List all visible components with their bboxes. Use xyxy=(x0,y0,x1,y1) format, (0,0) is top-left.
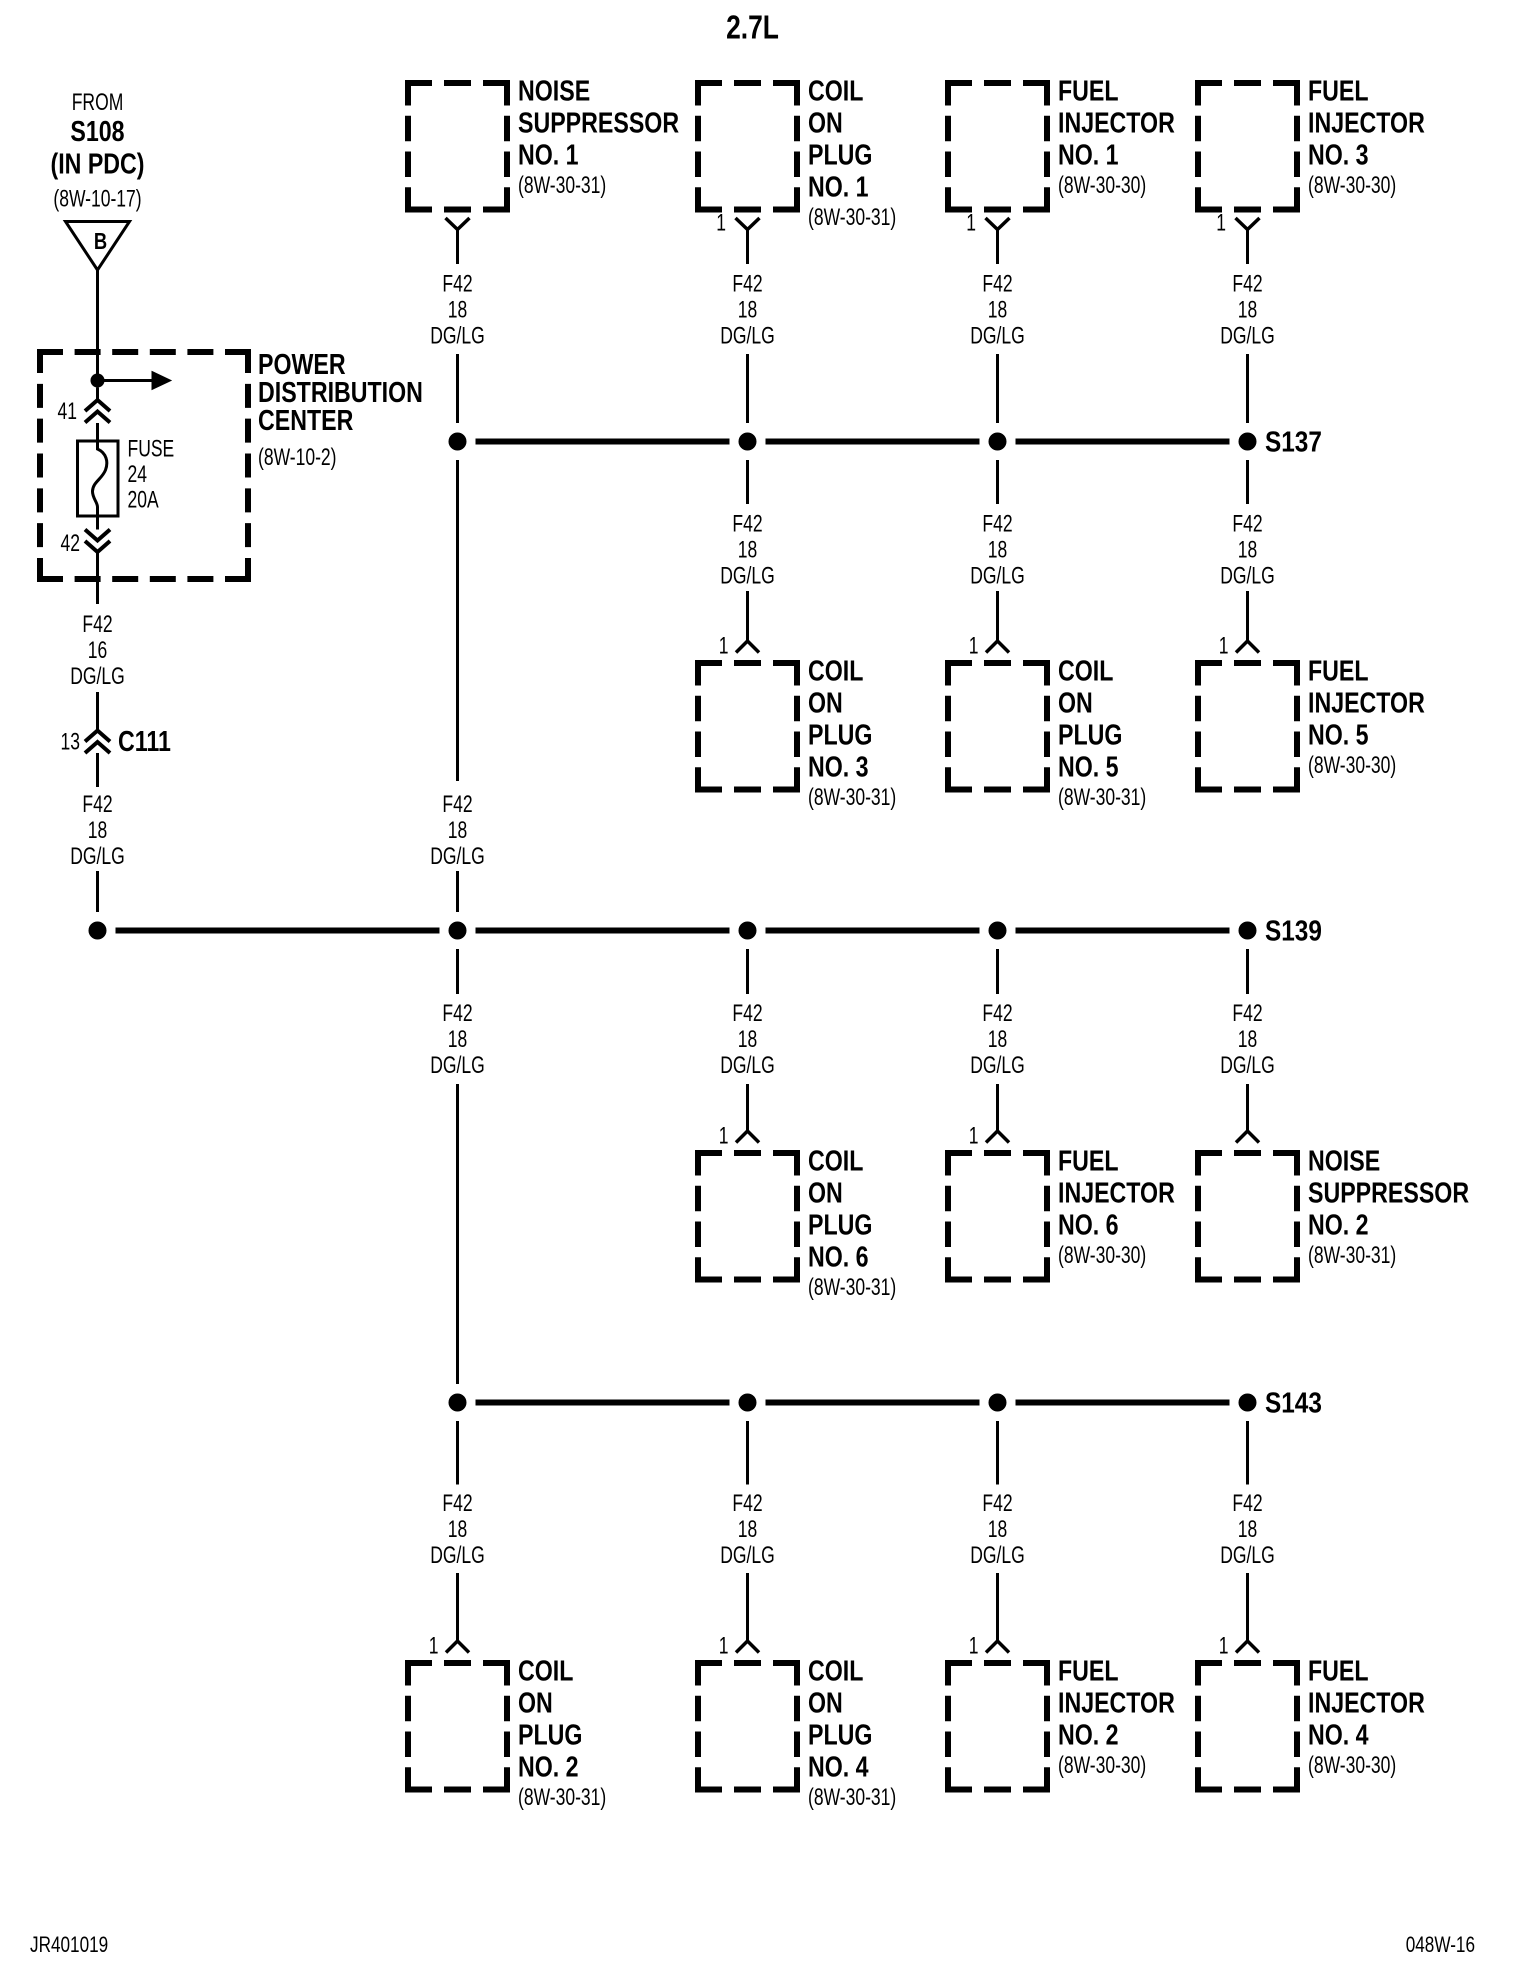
svg-text:DG/LG: DG/LG xyxy=(1220,1542,1274,1568)
svg-text:F42: F42 xyxy=(1232,271,1262,297)
svg-text:1: 1 xyxy=(969,1633,979,1659)
bus wire S137 segment xyxy=(476,439,730,445)
bus wire S139 segment xyxy=(116,928,440,934)
wire xyxy=(456,871,459,912)
wire xyxy=(996,1421,999,1485)
svg-text:FUEL: FUEL xyxy=(1058,74,1119,107)
bus wire S137 segment xyxy=(1016,439,1230,445)
svg-text:DG/LG: DG/LG xyxy=(1220,323,1274,349)
svg-text:DG/LG: DG/LG xyxy=(720,1542,774,1568)
svg-text:1: 1 xyxy=(429,1633,439,1659)
svg-text:1: 1 xyxy=(1219,633,1229,659)
junction node S137 xyxy=(989,433,1007,451)
junction node S139 xyxy=(739,922,757,940)
svg-text:C111: C111 xyxy=(118,724,171,757)
component box FUEL INJECTOR NO. 6 (dashed) xyxy=(945,1150,1050,1156)
wire xyxy=(96,423,99,441)
svg-text:F42: F42 xyxy=(732,1000,762,1026)
wire xyxy=(96,692,99,731)
svg-text:F42: F42 xyxy=(982,1000,1012,1026)
connector pin below fuel injector NO.1 xyxy=(986,218,1010,230)
connector pin above row3 box xyxy=(1236,1131,1259,1143)
svg-text:(8W-30-30): (8W-30-30) xyxy=(1058,1752,1146,1778)
svg-text:DG/LG: DG/LG xyxy=(970,323,1024,349)
bus wire S139 segment xyxy=(1016,928,1230,934)
connector pin 41 chevrons xyxy=(85,400,110,411)
wire xyxy=(1246,354,1249,423)
svg-text:ON: ON xyxy=(808,106,843,139)
svg-text:18: 18 xyxy=(88,817,107,843)
svg-text:FUEL: FUEL xyxy=(1308,654,1369,687)
svg-text:SUPPRESSOR: SUPPRESSOR xyxy=(1308,1176,1469,1209)
svg-text:18: 18 xyxy=(1238,537,1257,563)
wire xyxy=(1246,949,1249,994)
wire xyxy=(746,591,749,641)
svg-text:PLUG: PLUG xyxy=(808,1208,872,1241)
svg-text:(8W-30-31): (8W-30-31) xyxy=(808,204,896,230)
component box NOISE SUPPRESSOR NO. 1 (dashed) xyxy=(405,80,510,86)
wire xyxy=(996,460,999,504)
svg-text:NO. 5: NO. 5 xyxy=(1058,750,1119,783)
svg-text:DG/LG: DG/LG xyxy=(970,1052,1024,1078)
component box FUEL INJECTOR NO. 5 (dashed) xyxy=(1195,660,1300,666)
svg-text:NO. 3: NO. 3 xyxy=(808,750,869,783)
svg-text:(8W-30-31): (8W-30-31) xyxy=(808,1784,896,1810)
junction node S139 xyxy=(989,922,1007,940)
svg-text:(8W-30-30): (8W-30-30) xyxy=(1058,172,1146,198)
svg-text:(8W-30-31): (8W-30-31) xyxy=(518,172,606,198)
svg-text:NOISE: NOISE xyxy=(1308,1144,1380,1177)
svg-text:16: 16 xyxy=(88,637,107,663)
svg-text:NO. 2: NO. 2 xyxy=(1308,1208,1369,1241)
svg-text:18: 18 xyxy=(448,817,467,843)
bus wire S143 segment xyxy=(766,1400,980,1406)
svg-text:F42: F42 xyxy=(442,1490,472,1516)
svg-text:FUSE: FUSE xyxy=(128,436,175,462)
svg-text:B: B xyxy=(94,229,107,254)
svg-text:DG/LG: DG/LG xyxy=(970,1542,1024,1568)
svg-text:SUPPRESSOR: SUPPRESSOR xyxy=(518,106,679,139)
svg-text:1: 1 xyxy=(719,633,729,659)
svg-text:18: 18 xyxy=(448,1516,467,1542)
bus wire S137 segment xyxy=(766,439,980,445)
svg-text:18: 18 xyxy=(988,1026,1007,1052)
svg-text:F42: F42 xyxy=(732,271,762,297)
junction node S143 xyxy=(449,1394,467,1412)
svg-text:(8W-30-30): (8W-30-30) xyxy=(1058,1242,1146,1268)
connector pin below coil NO.1 xyxy=(736,218,760,230)
svg-text:F42: F42 xyxy=(732,511,762,537)
svg-text:ON: ON xyxy=(808,686,843,719)
svg-text:NO. 5: NO. 5 xyxy=(1308,718,1369,751)
svg-text:DG/LG: DG/LG xyxy=(430,1052,484,1078)
svg-text:DG/LG: DG/LG xyxy=(720,563,774,589)
off-page connector B from S108 xyxy=(66,222,130,271)
connector pin above row4 box xyxy=(446,1641,469,1653)
svg-text:18: 18 xyxy=(1238,1516,1257,1542)
svg-text:INJECTOR: INJECTOR xyxy=(1058,106,1175,139)
svg-text:(8W-30-30): (8W-30-30) xyxy=(1308,752,1396,778)
svg-text:DG/LG: DG/LG xyxy=(430,1542,484,1568)
svg-text:1: 1 xyxy=(1219,1633,1229,1659)
svg-text:18: 18 xyxy=(988,537,1007,563)
wire xyxy=(996,354,999,423)
svg-text:F42: F42 xyxy=(1232,1000,1262,1026)
wire xyxy=(456,354,459,423)
svg-text:DG/LG: DG/LG xyxy=(720,1052,774,1078)
connector pin above row2 box xyxy=(986,641,1009,653)
svg-text:INJECTOR: INJECTOR xyxy=(1058,1176,1175,1209)
svg-text:INJECTOR: INJECTOR xyxy=(1308,1686,1425,1719)
svg-text:1: 1 xyxy=(969,633,979,659)
svg-text:FUEL: FUEL xyxy=(1058,1654,1119,1687)
wire xyxy=(96,270,99,381)
svg-text:ON: ON xyxy=(808,1176,843,1209)
junction node S137 xyxy=(449,433,467,451)
component box FUEL INJECTOR NO. 2 (dashed) xyxy=(945,1660,1050,1666)
svg-text:INJECTOR: INJECTOR xyxy=(1058,1686,1175,1719)
junction node S139 xyxy=(449,922,467,940)
svg-text:F42: F42 xyxy=(1232,511,1262,537)
svg-text:ON: ON xyxy=(518,1686,553,1719)
wire xyxy=(746,1084,749,1131)
svg-text:FUEL: FUEL xyxy=(1308,1654,1369,1687)
svg-text:CENTER: CENTER xyxy=(258,403,353,436)
svg-text:S139: S139 xyxy=(1265,915,1322,947)
component box COIL ON PLUG NO. 5 (dashed) xyxy=(945,660,1050,666)
junction node S139 left end xyxy=(89,922,107,940)
component box COIL ON PLUG NO. 3 (dashed) xyxy=(695,660,800,666)
svg-text:PLUG: PLUG xyxy=(808,718,872,751)
svg-text:1: 1 xyxy=(969,1123,979,1149)
svg-text:18: 18 xyxy=(1238,1026,1257,1052)
svg-text:S143: S143 xyxy=(1265,1387,1322,1419)
svg-text:ON: ON xyxy=(808,1686,843,1719)
svg-text:NO. 4: NO. 4 xyxy=(808,1750,869,1783)
svg-text:1: 1 xyxy=(966,210,976,236)
svg-text:18: 18 xyxy=(988,297,1007,323)
svg-text:F42: F42 xyxy=(442,271,472,297)
connector pin 42 chevrons xyxy=(85,530,110,541)
component box FUEL INJECTOR NO. 1 (dashed) xyxy=(945,80,1050,86)
svg-text:NO. 1: NO. 1 xyxy=(808,170,869,203)
wire xyxy=(96,552,99,604)
svg-text:(8W-30-31): (8W-30-31) xyxy=(1308,1242,1396,1268)
component box COIL ON PLUG NO. 4 (dashed) xyxy=(695,1660,800,1666)
junction node S143 xyxy=(739,1394,757,1412)
svg-text:COIL: COIL xyxy=(808,654,863,687)
svg-text:COIL: COIL xyxy=(808,1654,863,1687)
svg-text:NO. 1: NO. 1 xyxy=(1058,138,1119,171)
wire xyxy=(456,1084,459,1384)
svg-text:NOISE: NOISE xyxy=(518,74,590,107)
svg-text:S137: S137 xyxy=(1265,426,1322,458)
component box COIL ON PLUG NO. 2 (dashed) xyxy=(405,1660,510,1666)
svg-text:F42: F42 xyxy=(982,271,1012,297)
svg-text:F42: F42 xyxy=(1232,1490,1262,1516)
svg-text:FROM: FROM xyxy=(72,89,124,115)
svg-text:F42: F42 xyxy=(82,611,112,637)
svg-text:F42: F42 xyxy=(982,511,1012,537)
connector pin above row3 box xyxy=(736,1131,759,1143)
svg-text:DG/LG: DG/LG xyxy=(430,843,484,869)
svg-text:S108: S108 xyxy=(70,114,124,147)
junction node S143 xyxy=(1239,1394,1257,1412)
svg-text:(8W-10-17): (8W-10-17) xyxy=(53,186,141,212)
svg-text:24: 24 xyxy=(128,461,148,487)
svg-text:DG/LG: DG/LG xyxy=(1220,1052,1274,1078)
component box COIL ON PLUG NO. 1 (dashed) xyxy=(695,80,800,86)
svg-text:18: 18 xyxy=(738,297,757,323)
svg-text:PLUG: PLUG xyxy=(1058,718,1122,751)
svg-text:NO. 6: NO. 6 xyxy=(808,1240,869,1273)
svg-text:(IN PDC): (IN PDC) xyxy=(50,147,144,180)
svg-text:20A: 20A xyxy=(128,487,159,513)
junction node S137 xyxy=(1239,433,1257,451)
wire xyxy=(96,388,99,401)
fuse 24 20A xyxy=(78,441,119,516)
svg-text:18: 18 xyxy=(1238,297,1257,323)
connector pin above row3 box xyxy=(986,1131,1009,1143)
wire xyxy=(96,871,99,912)
svg-text:F42: F42 xyxy=(732,1490,762,1516)
svg-text:(8W-30-31): (8W-30-31) xyxy=(808,784,896,810)
connector pin above row4 box xyxy=(736,1641,759,1653)
svg-text:41: 41 xyxy=(58,398,77,424)
bus wire S139 segment xyxy=(476,928,730,934)
wire xyxy=(456,1573,459,1641)
svg-text:PLUG: PLUG xyxy=(518,1718,582,1751)
wire xyxy=(1246,1573,1249,1641)
svg-text:NO. 3: NO. 3 xyxy=(1308,138,1369,171)
svg-text:1: 1 xyxy=(1216,210,1226,236)
svg-text:18: 18 xyxy=(738,537,757,563)
svg-text:COIL: COIL xyxy=(808,1144,863,1177)
svg-text:1: 1 xyxy=(719,1633,729,1659)
svg-text:COIL: COIL xyxy=(808,74,863,107)
wire xyxy=(996,591,999,641)
wire xyxy=(1246,1421,1249,1485)
arrow to other circuits xyxy=(98,379,153,382)
junction node S143 xyxy=(989,1394,1007,1412)
junction node in PDC xyxy=(91,374,105,388)
bus wire S139 segment xyxy=(766,928,980,934)
svg-text:DG/LG: DG/LG xyxy=(430,323,484,349)
wire xyxy=(96,516,99,530)
wire xyxy=(746,1573,749,1641)
svg-text:NO. 1: NO. 1 xyxy=(518,138,579,171)
svg-text:DG/LG: DG/LG xyxy=(720,323,774,349)
junction node S139 xyxy=(1239,922,1257,940)
svg-text:(8W-10-2): (8W-10-2) xyxy=(258,444,336,470)
svg-text:COIL: COIL xyxy=(1058,654,1113,687)
connector pin above row2 box xyxy=(736,641,759,653)
wire xyxy=(746,460,749,504)
connector pin below noise suppressor NO.1 xyxy=(446,218,470,230)
svg-text:18: 18 xyxy=(988,1516,1007,1542)
component box FUEL INJECTOR NO. 4 (dashed) xyxy=(1195,1660,1300,1666)
svg-text:13: 13 xyxy=(61,729,80,755)
svg-text:18: 18 xyxy=(448,297,467,323)
component box FUEL INJECTOR NO. 3 (dashed) xyxy=(1195,80,1300,86)
svg-text:(8W-30-30): (8W-30-30) xyxy=(1308,172,1396,198)
svg-text:42: 42 xyxy=(61,530,80,556)
svg-text:INJECTOR: INJECTOR xyxy=(1308,106,1425,139)
wire xyxy=(1246,1084,1249,1131)
wire xyxy=(96,753,99,787)
connector pin below fuel injector NO.3 xyxy=(1236,218,1260,230)
component box NOISE SUPPRESSOR NO. 2 (dashed) xyxy=(1195,1150,1300,1156)
svg-text:18: 18 xyxy=(448,1026,467,1052)
bus wire S143 segment xyxy=(476,1400,730,1406)
junction node S137 xyxy=(739,433,757,451)
wire xyxy=(456,460,459,781)
wire xyxy=(996,949,999,994)
svg-text:NO. 6: NO. 6 xyxy=(1058,1208,1119,1241)
power distribution center box (dashed) xyxy=(37,349,251,355)
svg-text:DG/LG: DG/LG xyxy=(70,663,124,689)
svg-text:18: 18 xyxy=(738,1026,757,1052)
wire xyxy=(746,949,749,994)
bus wire S143 segment xyxy=(1016,1400,1230,1406)
svg-text:FUEL: FUEL xyxy=(1058,1144,1119,1177)
svg-text:COIL: COIL xyxy=(518,1654,573,1687)
wire xyxy=(1246,460,1249,504)
wire xyxy=(996,1573,999,1641)
svg-text:INJECTOR: INJECTOR xyxy=(1308,686,1425,719)
svg-text:F42: F42 xyxy=(442,791,472,817)
wire xyxy=(456,949,459,994)
svg-text:(8W-30-31): (8W-30-31) xyxy=(808,1274,896,1300)
svg-text:PLUG: PLUG xyxy=(808,138,872,171)
svg-text:NO. 4: NO. 4 xyxy=(1308,1718,1369,1751)
component box COIL ON PLUG NO. 6 (dashed) xyxy=(695,1150,800,1156)
wire xyxy=(996,1084,999,1131)
wire xyxy=(1246,591,1249,641)
svg-text:DG/LG: DG/LG xyxy=(970,563,1024,589)
svg-text:F42: F42 xyxy=(442,1000,472,1026)
svg-text:2.7L: 2.7L xyxy=(726,10,779,46)
svg-text:NO. 2: NO. 2 xyxy=(1058,1718,1119,1751)
svg-text:(8W-30-30): (8W-30-30) xyxy=(1308,1752,1396,1778)
svg-text:1: 1 xyxy=(716,210,726,236)
svg-text:F42: F42 xyxy=(82,791,112,817)
connector pin above row4 box xyxy=(1236,1641,1259,1653)
wire xyxy=(746,354,749,423)
svg-text:PLUG: PLUG xyxy=(808,1718,872,1751)
connector C111 chevrons xyxy=(85,731,110,742)
svg-text:DG/LG: DG/LG xyxy=(1220,563,1274,589)
svg-text:(8W-30-31): (8W-30-31) xyxy=(1058,784,1146,810)
svg-text:(8W-30-31): (8W-30-31) xyxy=(518,1784,606,1810)
svg-text:1: 1 xyxy=(719,1123,729,1149)
svg-text:NO. 2: NO. 2 xyxy=(518,1750,579,1783)
svg-text:F42: F42 xyxy=(982,1490,1012,1516)
wire xyxy=(456,1421,459,1485)
connector pin above row4 box xyxy=(986,1641,1009,1653)
connector pin above row2 box xyxy=(1236,641,1259,653)
svg-text:18: 18 xyxy=(738,1516,757,1542)
wire xyxy=(746,1421,749,1485)
svg-text:ON: ON xyxy=(1058,686,1093,719)
svg-text:FUEL: FUEL xyxy=(1308,74,1369,107)
svg-text:JR401019: JR401019 xyxy=(30,1933,108,1958)
svg-text:DG/LG: DG/LG xyxy=(70,843,124,869)
svg-text:048W-16: 048W-16 xyxy=(1406,1933,1475,1958)
